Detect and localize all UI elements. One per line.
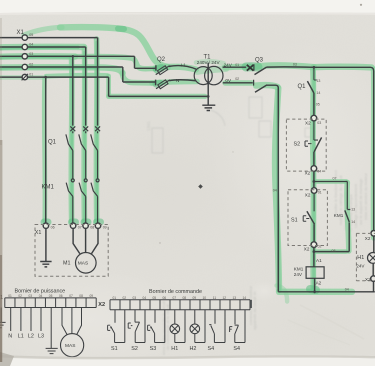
svg-text:07: 07 <box>69 294 73 298</box>
svg-text:X1: X1 <box>35 230 42 236</box>
svg-text:07: 07 <box>173 296 177 300</box>
svg-text:mise en service du moteur: mise en service du moteur <box>363 172 368 220</box>
svg-text:08: 08 <box>90 225 94 229</box>
svg-text:04: 04 <box>345 287 349 291</box>
svg-text:S3: S3 <box>150 346 157 352</box>
svg-text:12: 12 <box>223 296 227 300</box>
svg-text:07: 07 <box>78 225 82 229</box>
svg-text:H1: H1 <box>357 255 364 261</box>
svg-text:L2: L2 <box>28 333 34 339</box>
svg-text:02: 02 <box>235 77 239 81</box>
svg-text:11: 11 <box>213 296 217 300</box>
svg-text:03: 03 <box>29 294 33 298</box>
svg-text:14: 14 <box>316 91 320 95</box>
svg-text:de commande et le circuit: de commande et le circuit <box>165 304 170 350</box>
svg-text:24V: 24V <box>224 63 233 68</box>
svg-text:09: 09 <box>103 225 107 229</box>
svg-text:05: 05 <box>153 296 157 300</box>
svg-text:X1: X1 <box>17 30 25 36</box>
svg-text:S2: S2 <box>131 346 138 352</box>
svg-text:14: 14 <box>351 220 355 224</box>
svg-text:H1: H1 <box>171 346 178 352</box>
svg-text:1341: 1341 <box>146 120 151 131</box>
svg-text:0V: 0V <box>225 78 232 83</box>
svg-text:05: 05 <box>29 33 33 37</box>
svg-text:MAS: MAS <box>65 343 75 349</box>
svg-text:08: 08 <box>332 249 336 253</box>
svg-text:M1: M1 <box>63 261 71 267</box>
svg-text:01: 01 <box>29 73 33 77</box>
svg-text:02: 02 <box>123 296 127 300</box>
svg-text:X2: X2 <box>98 302 105 308</box>
svg-text:X2: X2 <box>304 247 310 252</box>
svg-text:02: 02 <box>318 245 322 249</box>
svg-text:13: 13 <box>316 79 320 83</box>
svg-text:A2: A2 <box>316 281 322 286</box>
svg-text:Q1: Q1 <box>298 84 307 90</box>
svg-text:10: 10 <box>203 296 207 300</box>
svg-text:240V / 24V: 240V / 24V <box>197 60 221 65</box>
svg-text:03: 03 <box>293 62 297 66</box>
svg-text:KM1: KM1 <box>294 266 304 271</box>
svg-text:04: 04 <box>273 189 277 193</box>
svg-text:01: 01 <box>318 191 322 195</box>
svg-text:06: 06 <box>51 225 55 229</box>
svg-text:S1: S1 <box>111 346 118 352</box>
svg-text:01: 01 <box>235 63 239 67</box>
svg-text:Q1: Q1 <box>48 139 57 145</box>
svg-text:Bornier de commande: Bornier de commande <box>149 289 202 295</box>
svg-text:24V: 24V <box>294 272 303 277</box>
svg-text:X2: X2 <box>305 193 311 198</box>
svg-text:24V: 24V <box>356 264 365 269</box>
svg-text:08: 08 <box>79 294 83 298</box>
svg-text:02: 02 <box>29 63 33 67</box>
svg-text:03: 03 <box>133 296 137 300</box>
svg-text:01: 01 <box>8 294 12 298</box>
svg-text:07: 07 <box>333 177 337 181</box>
svg-text:04: 04 <box>143 296 147 300</box>
svg-text:04: 04 <box>317 170 321 174</box>
svg-text:04: 04 <box>29 43 33 47</box>
svg-text:L3: L3 <box>38 333 44 339</box>
svg-text:09: 09 <box>193 296 197 300</box>
svg-text:03: 03 <box>29 52 33 56</box>
svg-text:X2: X2 <box>305 170 311 175</box>
svg-text:05: 05 <box>49 294 53 298</box>
svg-text:MAS: MAS <box>78 261 88 267</box>
svg-text:03: 03 <box>317 121 321 125</box>
svg-text:KM1: KM1 <box>334 213 344 218</box>
svg-text:N: N <box>176 78 179 83</box>
svg-text:13: 13 <box>351 208 355 212</box>
svg-text:X2: X2 <box>365 277 371 282</box>
svg-text:01: 01 <box>113 296 117 300</box>
svg-text:X2: X2 <box>365 236 371 241</box>
svg-text:L1: L1 <box>18 333 24 339</box>
svg-text:08: 08 <box>183 296 187 300</box>
svg-text:H2: H2 <box>190 346 197 352</box>
svg-text:S4: S4 <box>233 346 240 352</box>
svg-text:14: 14 <box>243 296 247 300</box>
svg-text:Q3: Q3 <box>255 57 264 63</box>
svg-text:06: 06 <box>59 294 63 298</box>
svg-text:KM1: KM1 <box>42 184 55 190</box>
svg-text:X2: X2 <box>305 120 311 125</box>
svg-text:Q2: Q2 <box>157 57 166 63</box>
svg-text:S4: S4 <box>208 346 215 352</box>
svg-text:02: 02 <box>18 294 22 298</box>
svg-text:S1: S1 <box>291 218 298 224</box>
svg-text:09: 09 <box>90 294 94 298</box>
svg-text:06: 06 <box>163 296 167 300</box>
svg-text:L1: L1 <box>181 62 187 67</box>
svg-text:13: 13 <box>233 296 237 300</box>
svg-text:S2: S2 <box>294 142 301 148</box>
svg-text:05: 05 <box>316 103 320 107</box>
svg-text:04: 04 <box>39 294 43 298</box>
svg-text:N: N <box>8 333 12 339</box>
svg-text:A1: A1 <box>316 258 322 263</box>
